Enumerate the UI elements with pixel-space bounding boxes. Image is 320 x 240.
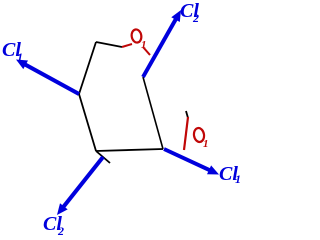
bond C3-C4 — [96, 149, 163, 151]
atom label O1 right — [193, 127, 205, 142]
bond C2-C4 — [143, 77, 163, 149]
atom label O1 top — [131, 29, 143, 44]
arrow to Cl2 bottom-left — [57, 156, 105, 215]
bond Ctop-O1 oxygen half — [122, 44, 132, 47]
arrow to Cl1 top-left — [16, 60, 80, 96]
bond O1-C2 oxygen half — [143, 47, 150, 55]
svg-text:2: 2 — [57, 224, 64, 238]
svg-text:1: 1 — [235, 172, 241, 186]
bond C3-C3b — [96, 151, 110, 163]
arrow to Cl1 bottom-right — [163, 147, 219, 174]
bond Ctop-O1 carbon half — [96, 42, 122, 47]
svg-text:1: 1 — [17, 50, 23, 64]
bond C5-O2 carbon half — [186, 111, 188, 118]
svg-text:1: 1 — [141, 39, 147, 51]
bond O2-C4 oxygen half — [184, 117, 188, 150]
svg-text:1: 1 — [203, 138, 209, 150]
arrow to Cl2 top-right — [141, 10, 181, 78]
bond C1-Ctop — [79, 42, 96, 94]
svg-text:2: 2 — [192, 11, 199, 25]
bond C1-C3 — [79, 94, 96, 151]
